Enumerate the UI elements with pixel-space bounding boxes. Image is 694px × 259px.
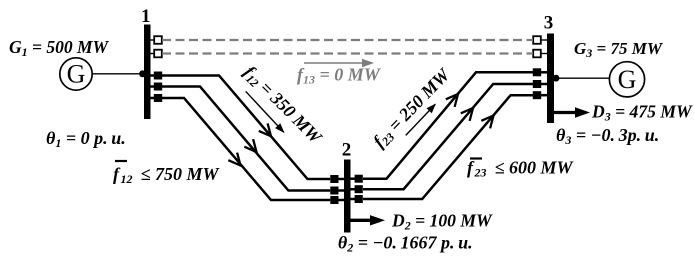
- line 1-3 white square terminal bus3 bottom: [533, 50, 541, 58]
- svg-text:θ3 = −0. 3p. u.: θ3 = −0. 3p. u.: [556, 125, 659, 147]
- svg-text:G: G: [67, 60, 86, 89]
- connector nub bus3 white squares: [541, 39, 548, 41]
- black square terminal bus2 left L2: [330, 187, 338, 195]
- svg-text:1: 1: [141, 6, 151, 27]
- label arrow f23 (thin): [403, 101, 439, 138]
- arrowhead on L2: [244, 139, 261, 156]
- black square terminal bus3 R2: [533, 80, 541, 88]
- text f23 = 250 MW (rotated): [369, 63, 456, 152]
- arrowhead on L3: [228, 153, 245, 170]
- bus 2 bar: [344, 160, 351, 233]
- text f12 = 350 MW (rotated): [239, 62, 327, 150]
- black square terminal bus2 left L3: [330, 196, 338, 204]
- arrowhead on R3: [481, 112, 498, 129]
- svg-text:3: 3: [544, 12, 554, 33]
- wire line L1 bus1-bus2: [162, 76, 330, 180]
- svg-text:2: 2: [342, 140, 352, 161]
- overbar of fbar12: [115, 160, 127, 162]
- dashed line 1-3 upper: [162, 39, 533, 41]
- generator G3 circle: [609, 62, 644, 97]
- black square terminal bus2 left L1: [330, 175, 338, 183]
- black square terminal bus2 right R2: [355, 185, 363, 193]
- black square terminal bus3 R3: [533, 91, 541, 99]
- label arrow f12 (thin): [243, 89, 287, 136]
- wire line R3 bus2-bus3: [363, 95, 533, 199]
- connector stubs bus3 black squares: [541, 71, 548, 74]
- line 1-3 white square terminal bus3 top: [533, 36, 541, 44]
- wire line R1 bus2-bus3: [363, 72, 533, 178]
- svg-text:G3 = 75 MW: G3 = 75 MW: [574, 39, 664, 60]
- svg-text:f12 ≤ 750 MW: f12 ≤ 750 MW: [113, 164, 220, 186]
- svg-text:θ1 = 0 p. u.: θ1 = 0 p. u.: [46, 128, 126, 150]
- svg-text:f13 = 0 MW: f13 = 0 MW: [297, 65, 382, 87]
- svg-text:θ2 = −0. 1667 p. u.: θ2 = −0. 1667 p. u.: [338, 233, 473, 255]
- svg-text:D3 = 475 MW: D3 = 475 MW: [591, 102, 693, 124]
- svg-text:f23 ≤ 600 MW: f23 ≤ 600 MW: [467, 158, 574, 180]
- connector stubs bus1 black squares: [150, 74, 155, 77]
- line 1-3 white square terminal bus1 bottom: [154, 50, 162, 58]
- node junction dot bus 3: [553, 75, 560, 82]
- bus 1 bar: [144, 25, 151, 120]
- arrowhead on L1: [259, 123, 276, 140]
- arrowhead on R1: [446, 90, 463, 107]
- wire line L2 bus1-bus2: [162, 87, 330, 191]
- connector nub bus1 white squares: [150, 39, 155, 41]
- wire line R2 bus2-bus3: [363, 84, 533, 189]
- connector stubs bus2 black squares: [338, 178, 345, 181]
- black square terminal bus1 L2: [154, 83, 162, 91]
- svg-text:f23 = 250 MW: f23 = 250 MW: [369, 63, 456, 152]
- node junction dot bus 1: [139, 70, 146, 77]
- wire G3 to bus 3: [554, 77, 610, 79]
- overbar of fbar23: [470, 157, 482, 159]
- load arrow D2: [351, 219, 373, 222]
- black square terminal bus2 right R1: [355, 175, 363, 183]
- svg-text:D2 = 100 MW: D2 = 100 MW: [391, 210, 493, 232]
- black square terminal bus1 L3: [154, 94, 162, 102]
- wire line L3 bus1-bus2: [162, 98, 330, 200]
- dashed line 1-3 lower: [162, 52, 533, 54]
- line 1-3 white square terminal bus1 top: [154, 36, 162, 44]
- svg-text:G: G: [618, 65, 637, 94]
- black square terminal bus2 right R3: [355, 195, 363, 203]
- label arrow f13 (gray): [304, 62, 366, 64]
- black square terminal bus3 R1: [533, 68, 541, 76]
- bus 3 bar: [547, 34, 554, 124]
- arrowhead on R2: [461, 104, 478, 121]
- svg-text:G1 = 500 MW: G1 = 500 MW: [9, 37, 110, 59]
- wire G1 to bus 1: [92, 73, 144, 75]
- black square terminal bus1 L1: [154, 72, 162, 80]
- load arrow D3: [554, 111, 577, 114]
- generator G1 circle: [60, 58, 92, 90]
